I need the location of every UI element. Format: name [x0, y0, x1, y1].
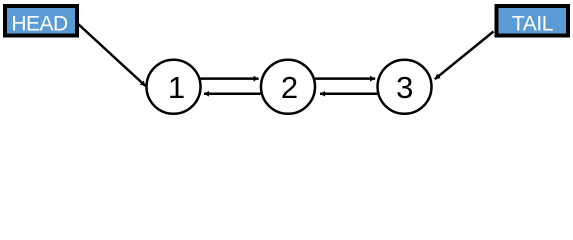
svg-text:1: 1: [168, 70, 185, 105]
svg-text:2: 2: [281, 70, 298, 105]
svg-text:HEAD: HEAD: [11, 13, 68, 36]
svg-text:3: 3: [396, 70, 413, 105]
svg-text:TAIL: TAIL: [512, 13, 553, 36]
